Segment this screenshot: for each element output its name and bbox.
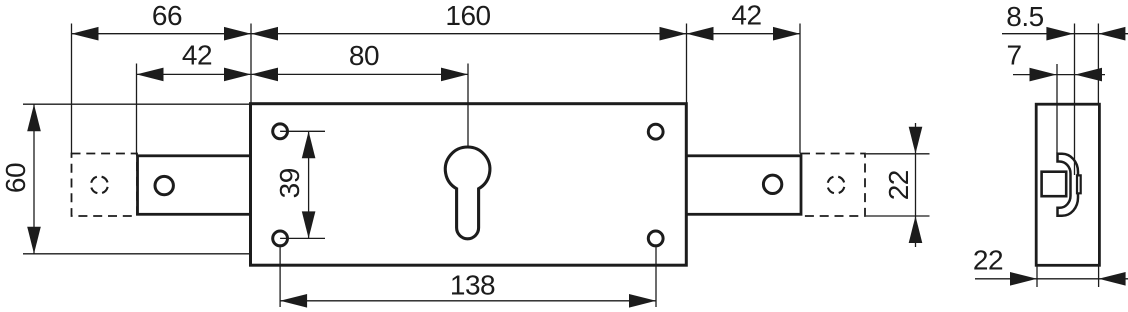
dimension 138 line: [280, 300, 656, 302]
dimension 22 bottom left arrow (outside, pointing right): [1010, 272, 1037, 286]
right bolt bar: [686, 156, 801, 215]
svg-text:22: 22: [973, 244, 1003, 275]
dimension 42 left right-arrow: [224, 68, 251, 82]
svg-text:80: 80: [349, 40, 379, 71]
leader line from top-left hole (39 dim): [280, 130, 325, 132]
dimension 7 right arrow (outside, pointing left): [1075, 68, 1102, 82]
extension line right 22 bottom: [866, 215, 930, 217]
dimension 160 line: [251, 33, 687, 35]
svg-text:7: 7: [1006, 40, 1021, 71]
extension line x=1057 (7 dim, D flat face): [1056, 64, 1058, 153]
lock body (front view): [251, 104, 687, 266]
dimension 66 line: [72, 33, 252, 35]
dimension 8.5 line: [1002, 33, 1128, 35]
svg-text:160: 160: [445, 0, 490, 31]
fixing hole top-left: [273, 124, 288, 139]
right bolt hole: [763, 175, 781, 193]
dimension 66 right arrow: [224, 27, 251, 41]
dashed ghost rect of right bolt (extended position): [801, 154, 865, 217]
euro cylinder keyhole: [445, 147, 490, 239]
extension line right 22 top: [866, 153, 930, 155]
dimension 39 down arrow: [302, 211, 316, 238]
dimension 80 left arrow: [251, 68, 278, 82]
wire: bottom-left extension line (60 dim lower): [23, 253, 250, 255]
side view cylinder tab: [1077, 175, 1081, 193]
dimension 80 right arrow: [441, 68, 468, 82]
fixing hole top-right: [648, 124, 663, 139]
dimension 7 line: [1013, 74, 1105, 76]
svg-text:42: 42: [731, 0, 761, 31]
svg-text:39: 39: [274, 168, 305, 198]
dimension 42 left left-arrow: [137, 68, 164, 82]
extension line below bottom-left hole (138 dim): [279, 247, 281, 307]
dimension 22 bottom right arrow (outside, pointing left): [1099, 272, 1126, 286]
side view bolt square: [1042, 172, 1067, 197]
svg-text:138: 138: [450, 269, 495, 300]
dimension 138 left arrow: [280, 294, 307, 308]
side view body: [1036, 104, 1099, 265]
dimension 60 line: [33, 104, 35, 254]
dimension 80 line: [251, 73, 468, 75]
svg-text:22: 22: [883, 170, 914, 200]
wire: extension line x=71.5 (left end of 66): [71, 24, 73, 154]
wire: extension line x=800 (right end of 42): [799, 24, 801, 154]
dimension 138 right arrow: [629, 294, 656, 308]
wire: extension line x=251 (body left edge up to dims): [250, 24, 252, 104]
dimension 42 top-right right arrow: [773, 27, 800, 41]
wire: top-left extension line (body top, to 60 dim): [23, 103, 250, 105]
svg-text:66: 66: [152, 0, 182, 31]
svg-text:60: 60: [0, 163, 31, 193]
dimension 8.5 right arrow (outside, pointing left): [1098, 27, 1125, 41]
extension line bottom 22 left: [1036, 266, 1038, 287]
dimension 7 left arrow (outside, pointing right): [1030, 68, 1057, 82]
svg-text:42: 42: [182, 39, 212, 70]
dimension 42 top-right line: [687, 33, 801, 35]
dimension 160 right arrow: [660, 27, 687, 41]
left bolt bar: [138, 156, 251, 215]
dimension 22 right line: [915, 123, 917, 247]
leader line from bottom-left hole (39 dim): [280, 237, 325, 239]
svg-text:8.5: 8.5: [1006, 1, 1043, 32]
extension line below bottom-right hole (138 dim): [655, 247, 657, 307]
dimension 8.5 left arrow (outside, pointing right): [1046, 27, 1073, 41]
extension line x=1074.5 (tab face): [1074, 24, 1076, 176]
dimension 66 left arrow: [72, 27, 99, 41]
left bolt hole: [155, 176, 173, 194]
side view bolt guide (D shape): [1058, 154, 1079, 216]
wire: extension line x=686.5 (body right edge up to dims): [686, 24, 688, 104]
extension line bottom 22 right: [1098, 266, 1100, 287]
dashed ghost circle of right bolt hole: [828, 176, 845, 193]
dimension 160 left arrow: [251, 27, 278, 41]
dimension 42 top-right left arrow: [687, 27, 714, 41]
wire: extension line x=136.5 (left end of 42): [136, 64, 138, 156]
dimension 22 right up arrow: [909, 216, 923, 243]
fixing hole bottom-right: [648, 231, 663, 246]
dimension 60 up arrow: [27, 104, 41, 131]
dimension 39 up arrow: [302, 131, 316, 158]
dashed ghost rect of left bolt (extended position): [72, 154, 138, 217]
dimension 22 right down arrow: [909, 127, 923, 154]
dashed ghost circle of left bolt hole: [91, 176, 108, 193]
dimension 22 bottom line: [975, 278, 1128, 280]
dimension 60 down arrow: [27, 227, 41, 254]
extension line x=1098.4 (side body right edge): [1097, 24, 1099, 104]
wire: keyhole centreline x=468: [467, 64, 469, 147]
dimension 39 line: [308, 131, 310, 238]
fixing hole bottom-left: [273, 231, 288, 246]
dimension 42 left line: [137, 73, 252, 75]
